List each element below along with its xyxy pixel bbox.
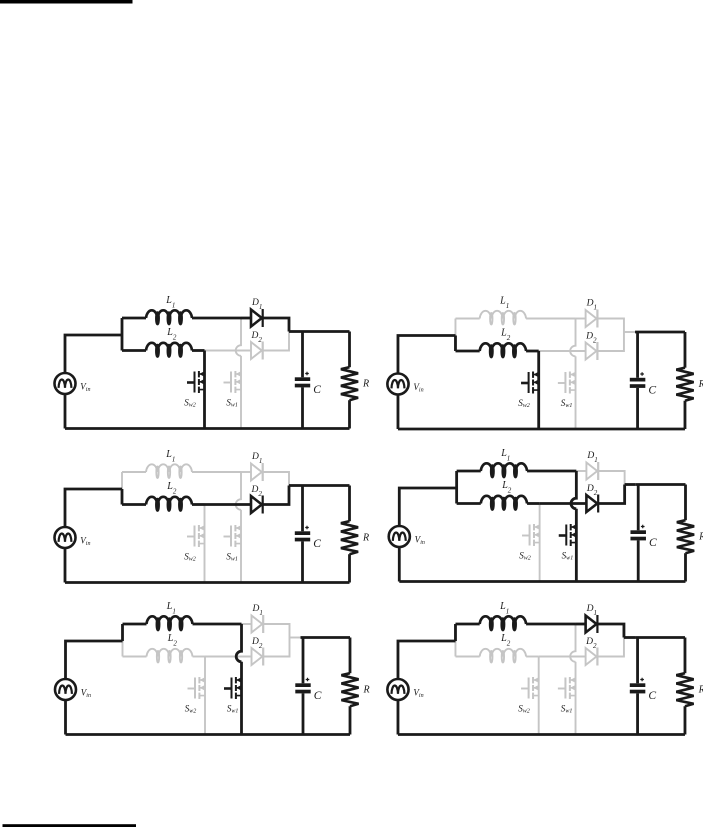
wire: D1 cathode to output step bbox=[264, 472, 290, 486]
voltage source Vin bbox=[387, 679, 408, 700]
inductor L1 bbox=[480, 616, 526, 630]
svg-text:R: R bbox=[362, 378, 369, 389]
svg-text:D1: D1 bbox=[586, 451, 597, 464]
wire: capacitor top lead bbox=[636, 638, 639, 684]
wire: Sw2 drain-source vertical bbox=[204, 505, 206, 583]
wire: D2 cathode up to output rail bbox=[264, 638, 290, 657]
wire: Sw2 drain-source vertical bbox=[537, 351, 540, 429]
wire: Sw1 vertical upper with crossover hop bbox=[570, 624, 575, 662]
diode D1 bbox=[586, 615, 598, 633]
wire: L2 branch left bbox=[455, 350, 479, 353]
wire: source bottom to ground rail bbox=[64, 394, 67, 429]
inductor L1 bbox=[146, 464, 192, 478]
wire: capacitor bottom lead bbox=[301, 541, 304, 582]
wire: D2 cathode up to output rail bbox=[264, 332, 290, 351]
wire: R bottom lead bbox=[684, 401, 687, 429]
wire: L1 branch left bbox=[455, 623, 479, 626]
wire: node to D1 anode bbox=[241, 317, 251, 320]
resistor R bbox=[677, 520, 694, 553]
wire: branch vertical upper (input node to L1) bbox=[454, 624, 457, 641]
svg-text:Sw2: Sw2 bbox=[518, 398, 530, 409]
wire: branch vertical lower (input node to L2) bbox=[122, 641, 124, 657]
wire: Sw1 vertical upper with crossover hop bbox=[571, 471, 576, 509]
transistor Sw1 (MOSFET) bbox=[224, 525, 242, 547]
wire: R bottom lead bbox=[684, 553, 687, 581]
wire: node to D1 anode bbox=[241, 471, 251, 473]
wire: L1 to node above Sw1 bbox=[193, 623, 242, 626]
wire: L2 node across to D2 anode bbox=[539, 656, 586, 658]
wire: R top lead bbox=[684, 638, 687, 674]
wire: diode node to output rail bbox=[624, 636, 635, 639]
svg-text:Vin: Vin bbox=[413, 382, 423, 394]
wire: L1 branch left bbox=[123, 623, 147, 626]
wire: source bottom to ground rail bbox=[397, 395, 400, 430]
svg-text:Vin: Vin bbox=[415, 535, 425, 547]
svg-text:L2: L2 bbox=[500, 633, 511, 647]
circuit 4 (operating mode 4) bbox=[389, 448, 703, 582]
svg-text:R: R bbox=[363, 684, 370, 695]
redaction bar bottom-left bbox=[3, 824, 137, 827]
svg-text:D1: D1 bbox=[586, 297, 597, 311]
wire: capacitor bottom lead bbox=[301, 387, 304, 428]
wire: L1 branch left bbox=[457, 470, 481, 473]
resistor R bbox=[341, 521, 358, 554]
wire: node to D1 anode bbox=[242, 623, 252, 625]
svg-text:L2: L2 bbox=[501, 480, 512, 494]
wire: D1 cathode to output step bbox=[598, 319, 624, 333]
wire: Sw1 vertical lower bbox=[240, 662, 243, 735]
wire: D2 cathode up to output rail bbox=[598, 638, 624, 657]
wire: L2 branch left bbox=[457, 502, 481, 505]
wire: D1 cathode to output step bbox=[264, 624, 290, 638]
transistor Sw2 (MOSFET) bbox=[187, 525, 205, 547]
capacitor C bbox=[630, 525, 645, 541]
wire: capacitor bottom lead bbox=[302, 693, 305, 734]
wire: L2 node across to D2 anode bbox=[205, 503, 252, 506]
svg-text:L2: L2 bbox=[166, 481, 177, 496]
svg-text:D1: D1 bbox=[251, 298, 262, 311]
circuit 5 (operating mode 5) bbox=[55, 601, 370, 735]
diode D1 bbox=[586, 310, 598, 328]
svg-text:C: C bbox=[649, 537, 657, 549]
wire: L2 to node above Sw2 bbox=[193, 656, 206, 658]
circuit 6 (operating mode 6) bbox=[387, 601, 703, 735]
wire: source top to input node bbox=[66, 641, 123, 679]
wire: branch vertical upper (input node to L1) bbox=[121, 472, 123, 489]
inductor L1 bbox=[480, 311, 526, 325]
svg-text:R: R bbox=[698, 684, 703, 695]
transistor Sw1 (MOSFET) bbox=[559, 524, 577, 546]
diode D2 bbox=[586, 648, 598, 666]
svg-text:Sw1: Sw1 bbox=[561, 398, 573, 409]
wire: Sw2 drain-source vertical bbox=[539, 504, 541, 582]
wire: branch vertical lower (input node to L2) bbox=[455, 488, 458, 504]
wire: capacitor top lead bbox=[301, 486, 304, 532]
wire: bottom ground rail bbox=[399, 580, 685, 583]
wire: D2 cathode up to output rail bbox=[599, 485, 625, 504]
wire: L2 branch left bbox=[122, 503, 146, 506]
wire: L1 to node above Sw1 bbox=[526, 623, 575, 626]
svg-text:L1: L1 bbox=[499, 601, 509, 615]
wire: L2 node across to D2 anode bbox=[540, 502, 587, 505]
svg-text:Sw1: Sw1 bbox=[226, 552, 238, 563]
svg-text:Sw1: Sw1 bbox=[227, 704, 239, 715]
svg-text:Sw2: Sw2 bbox=[184, 552, 196, 563]
svg-text:Vin: Vin bbox=[413, 688, 423, 700]
wire: D1 cathode to output step bbox=[599, 471, 625, 485]
wire: branch vertical lower (input node to L2) bbox=[121, 335, 124, 351]
wire: D2 cathode up to output rail bbox=[598, 332, 624, 351]
inductor L2 bbox=[147, 649, 193, 663]
wire: branch vertical lower (input node to L2) bbox=[121, 489, 124, 505]
wire: Sw1 vertical upper with crossover hop bbox=[236, 472, 241, 510]
svg-text:C: C bbox=[313, 384, 321, 396]
wire: node to D1 anode bbox=[576, 623, 586, 626]
diode D1 bbox=[251, 463, 263, 481]
capacitor C bbox=[295, 678, 310, 694]
wire: bottom ground rail bbox=[65, 581, 350, 584]
wire: Sw1 vertical lower bbox=[575, 356, 577, 429]
transistor Sw2 (MOSFET) bbox=[521, 372, 539, 394]
wire: capacitor top lead bbox=[636, 332, 639, 378]
inductor L1 bbox=[481, 463, 527, 477]
wire: Sw1 vertical lower bbox=[575, 662, 577, 735]
wire: bottom ground rail bbox=[398, 428, 685, 431]
svg-text:D1: D1 bbox=[586, 603, 597, 617]
svg-text:Sw2: Sw2 bbox=[184, 398, 196, 409]
wire: diode node to output rail bbox=[289, 330, 300, 333]
wire: branch vertical upper (input node to L1) bbox=[455, 471, 458, 488]
svg-text:C: C bbox=[313, 538, 321, 550]
wire: branch vertical upper (input node to L1) bbox=[454, 319, 456, 336]
wire: output top rail (C to R) bbox=[635, 331, 685, 334]
diode D2 bbox=[586, 342, 598, 360]
wire: capacitor bottom lead bbox=[637, 540, 640, 581]
svg-text:Sw2: Sw2 bbox=[518, 704, 530, 715]
svg-text:R: R bbox=[362, 532, 369, 543]
svg-text:C: C bbox=[648, 690, 656, 702]
wire: node to D1 anode bbox=[576, 470, 586, 472]
wire: R top lead bbox=[684, 485, 687, 521]
resistor R bbox=[341, 673, 358, 706]
capacitor C bbox=[630, 372, 646, 388]
wire: L2 node across to D2 anode bbox=[205, 350, 252, 352]
transistor Sw2 (MOSFET) bbox=[188, 677, 206, 699]
diode D2 bbox=[251, 496, 263, 514]
wire: L1 to node above Sw1 bbox=[526, 318, 575, 320]
wire: Sw1 vertical lower bbox=[240, 356, 242, 429]
wire: output top rail (C to R) bbox=[301, 636, 351, 639]
wire: Sw1 vertical lower bbox=[575, 509, 578, 582]
svg-text:Vin: Vin bbox=[80, 536, 90, 548]
wire: L2 to node above Sw2 bbox=[527, 502, 540, 505]
inductor L2 bbox=[480, 343, 526, 357]
wire: branch vertical upper (input node to L1) bbox=[121, 318, 124, 335]
wire: bottom ground rail bbox=[66, 733, 351, 736]
wire: Sw2 drain-source vertical bbox=[203, 351, 206, 429]
wire: L2 node across to D2 anode bbox=[205, 656, 252, 658]
diode D2 bbox=[252, 648, 264, 666]
transistor Sw2 (MOSFET) bbox=[187, 371, 205, 393]
wire: L1 branch left bbox=[122, 317, 146, 320]
wire: capacitor bottom lead bbox=[636, 388, 639, 429]
svg-text:Sw1: Sw1 bbox=[562, 551, 574, 562]
transistor Sw1 (MOSFET) bbox=[224, 371, 242, 393]
svg-text:Sw2: Sw2 bbox=[185, 704, 197, 715]
wire: R top lead bbox=[348, 486, 351, 522]
inductor L1 bbox=[146, 310, 192, 324]
transistor Sw1 (MOSFET) bbox=[558, 677, 576, 699]
wire: diode node to output rail bbox=[624, 331, 635, 333]
wire: diode node to output rail bbox=[625, 483, 636, 486]
transistor Sw1 (MOSFET) bbox=[558, 372, 576, 394]
wire: Sw1 vertical upper with crossover hop bbox=[236, 624, 241, 662]
wire: source bottom to ground rail bbox=[64, 548, 67, 583]
wire: D1 cathode to output step bbox=[598, 624, 624, 638]
svg-text:Sw1: Sw1 bbox=[561, 704, 573, 715]
wire: source bottom to ground rail bbox=[398, 547, 401, 582]
wire: R bottom lead bbox=[348, 554, 351, 582]
wire: branch vertical lower (input node to L2) bbox=[454, 336, 457, 352]
wire: source bottom to ground rail bbox=[397, 700, 400, 735]
wire: D2 cathode up to output rail bbox=[264, 486, 290, 505]
wire: Sw2 drain-source vertical bbox=[204, 657, 206, 735]
svg-text:D1: D1 bbox=[252, 604, 263, 617]
inductor L2 bbox=[481, 496, 527, 510]
svg-text:R: R bbox=[698, 379, 703, 390]
svg-text:R: R bbox=[698, 531, 703, 542]
wire: capacitor bottom lead bbox=[636, 693, 639, 734]
transistor Sw2 (MOSFET) bbox=[522, 524, 540, 546]
transistor Sw2 (MOSFET) bbox=[521, 677, 539, 699]
diode D2 bbox=[586, 495, 598, 513]
voltage source Vin bbox=[389, 526, 410, 547]
diode D1 bbox=[586, 462, 598, 480]
wire: L1 to node above Sw1 bbox=[192, 317, 241, 320]
voltage source Vin bbox=[55, 527, 76, 548]
wire: R bottom lead bbox=[349, 706, 352, 734]
svg-text:L1: L1 bbox=[166, 601, 176, 616]
circuit 2 (operating mode 2) bbox=[387, 295, 703, 429]
wire: diode node to output rail bbox=[290, 637, 301, 639]
resistor R bbox=[341, 367, 358, 400]
wire: capacitor top lead bbox=[301, 332, 304, 378]
svg-text:Sw1: Sw1 bbox=[226, 398, 238, 409]
wire: L2 branch left bbox=[123, 656, 147, 658]
circuit 3 (operating mode 3) bbox=[55, 449, 370, 583]
voltage source Vin bbox=[55, 679, 76, 700]
wire: L1 branch left bbox=[122, 471, 146, 473]
diode D2 bbox=[251, 342, 263, 360]
wire: capacitor top lead bbox=[637, 485, 640, 531]
wire: L2 to node above Sw2 bbox=[526, 656, 539, 658]
wire: L2 branch left bbox=[455, 656, 479, 658]
wire: bottom ground rail bbox=[65, 427, 350, 430]
redaction bar top-left bbox=[0, 0, 133, 4]
wire: Sw1 vertical upper with crossover hop bbox=[570, 319, 575, 357]
svg-text:L2: L2 bbox=[166, 327, 177, 342]
wire: D1 cathode to output step bbox=[264, 318, 290, 332]
svg-text:L2: L2 bbox=[167, 633, 178, 648]
capacitor C bbox=[630, 678, 646, 694]
wire: Sw1 vertical lower bbox=[240, 510, 242, 583]
inductor L2 bbox=[146, 343, 192, 357]
wire: branch vertical upper (input node to L1) bbox=[121, 624, 124, 641]
wire: source top to input node bbox=[65, 489, 122, 527]
wire: L1 to node above Sw1 bbox=[527, 470, 576, 473]
resistor R bbox=[676, 673, 693, 706]
wire: R top lead bbox=[684, 332, 687, 368]
wire: source top to input node bbox=[398, 336, 456, 374]
wire: R top lead bbox=[348, 332, 351, 368]
svg-text:Vin: Vin bbox=[81, 688, 91, 700]
wire: output top rail (C to R) bbox=[635, 636, 685, 639]
svg-text:C: C bbox=[314, 690, 322, 702]
svg-text:L1: L1 bbox=[165, 449, 175, 464]
wire: L1 branch left bbox=[455, 318, 479, 320]
wire: L2 node across to D2 anode bbox=[539, 350, 586, 352]
wire: bottom ground rail bbox=[398, 733, 685, 736]
wire: source bottom to ground rail bbox=[64, 700, 67, 735]
wire: node to D1 anode bbox=[576, 318, 586, 320]
diode D1 bbox=[251, 309, 263, 327]
wire: L2 to node above Sw2 bbox=[192, 503, 205, 506]
wire: output top rail (C to R) bbox=[636, 483, 686, 486]
svg-text:Sw2: Sw2 bbox=[519, 551, 531, 562]
resistor R bbox=[676, 368, 693, 401]
inductor L2 bbox=[146, 497, 192, 511]
svg-text:C: C bbox=[648, 385, 656, 397]
wire: Sw2 drain-source vertical bbox=[538, 657, 540, 735]
voltage source Vin bbox=[387, 374, 408, 395]
wire: output top rail (C to R) bbox=[300, 484, 350, 487]
wire: capacitor top lead bbox=[302, 638, 305, 684]
svg-text:L1: L1 bbox=[499, 295, 509, 309]
wire: R top lead bbox=[349, 638, 352, 674]
wire: L2 to node above Sw2 bbox=[192, 349, 205, 352]
inductor L1 bbox=[147, 616, 193, 630]
wire: source top to input node bbox=[398, 641, 456, 679]
capacitor C bbox=[295, 372, 310, 388]
wire: source top to input node bbox=[65, 335, 122, 373]
wire: L2 branch left bbox=[122, 349, 146, 352]
svg-text:L1: L1 bbox=[165, 295, 175, 310]
wire: L2 to node above Sw2 bbox=[526, 350, 539, 353]
wire: R bottom lead bbox=[348, 400, 351, 428]
wire: R bottom lead bbox=[684, 706, 687, 734]
wire: source top to input node bbox=[399, 488, 456, 526]
svg-text:D1: D1 bbox=[251, 452, 262, 465]
transistor Sw1 (MOSFET) bbox=[224, 677, 242, 699]
wire: diode node to output rail bbox=[289, 484, 300, 487]
svg-text:L2: L2 bbox=[500, 328, 511, 342]
wire: L1 to node above Sw1 bbox=[192, 471, 241, 473]
svg-text:Vin: Vin bbox=[80, 382, 90, 394]
voltage source Vin bbox=[55, 373, 76, 394]
wire: branch vertical lower (input node to L2) bbox=[454, 641, 456, 657]
inductor L2 bbox=[480, 649, 526, 663]
diode D1 bbox=[252, 615, 264, 633]
circuit 1 (operating mode 1) bbox=[55, 295, 370, 429]
svg-text:L1: L1 bbox=[500, 448, 510, 462]
wire: output top rail (C to R) bbox=[300, 330, 350, 333]
capacitor C bbox=[295, 526, 310, 542]
wire: Sw1 vertical upper with crossover hop bbox=[236, 318, 241, 356]
